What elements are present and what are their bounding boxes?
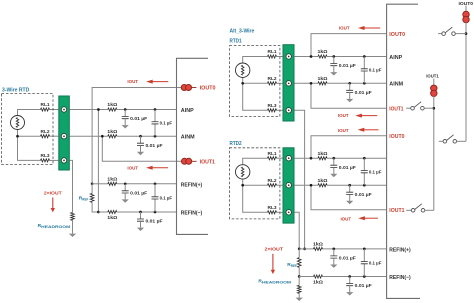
resistor RHEADROOM right	[298, 277, 300, 286]
wire RL3 to block	[277, 109, 284, 111]
svg-text:AINM: AINM	[181, 135, 195, 141]
svg-text:0.01 µF: 0.01 µF	[130, 116, 147, 121]
terminal 3 J3	[286, 210, 291, 215]
wire RTD1 RL2 row	[243, 82, 268, 84]
ground headroom	[69, 234, 76, 237]
capacitor 0.1uF REFIN	[154, 182, 157, 185]
capacitor 0.01uF AINM1	[348, 82, 351, 85]
svg-text:RL3: RL3	[268, 205, 278, 210]
svg-text:IOUT0: IOUT0	[389, 134, 404, 140]
svg-text:0.1 µF: 0.1 µF	[369, 68, 382, 73]
current source IOUT1	[181, 158, 187, 164]
terminal 2 J3	[286, 183, 291, 188]
svg-text:0.1 µF: 0.1 µF	[160, 196, 173, 201]
junction IOUT0 bus switch	[465, 32, 468, 35]
svg-text:0.01 µF: 0.01 µF	[339, 256, 356, 261]
svg-text:2×IOUT: 2×IOUT	[265, 246, 284, 252]
svg-text:IOUT: IOUT	[127, 165, 138, 170]
svg-text:1kΩ: 1kΩ	[318, 49, 329, 54]
junction IOUT1 bus switch	[432, 107, 435, 110]
wire IOUT0 pin to AINP2 node	[311, 136, 387, 158]
svg-text:2×IOUT: 2×IOUT	[44, 191, 62, 197]
resistor RL2 rtd1	[268, 82, 277, 85]
dashed box 3-wire RTD	[2, 94, 54, 165]
capacitor 0.01uF REFIN(-)	[139, 211, 142, 214]
wire AINM2 row	[294, 184, 318, 186]
wire RTD1 top lead to RL1	[243, 57, 268, 64]
svg-text:0.01 µF: 0.01 µF	[355, 90, 372, 95]
svg-text:1kΩ: 1kΩ	[318, 178, 329, 183]
junction RTD2 bottom / RL2	[241, 184, 244, 187]
switch IOUT1 to RTD1	[406, 107, 411, 109]
svg-text:0.1 µF: 0.1 µF	[369, 261, 382, 266]
wire RL3 rtd2 to block	[277, 211, 284, 213]
svg-text:IOUT: IOUT	[339, 25, 350, 30]
svg-text:1kΩ: 1kΩ	[318, 76, 329, 81]
wire RTD1 bottom lead down to RL3 row	[243, 77, 268, 110]
svg-text:1kΩ: 1kΩ	[107, 102, 118, 107]
capacitor 0.1uF AINP-AINM	[154, 108, 157, 111]
svg-text:0.01 µF: 0.01 µF	[339, 165, 356, 170]
wire RL2 to block	[277, 82, 284, 84]
capacitor 0.1uF REFIN right	[363, 248, 366, 251]
svg-text:RTD2: RTD2	[230, 141, 242, 147]
svg-text:AINP: AINP	[389, 55, 402, 61]
junction RTD bottom / RL2	[16, 135, 19, 138]
capacitor 0.01uF AINM	[139, 135, 142, 138]
resistor RL1	[41, 108, 50, 111]
svg-text:REFIN(+): REFIN(+)	[181, 182, 203, 188]
wire RTD top lead to RL1	[18, 110, 41, 116]
svg-text:0.01 µF: 0.01 µF	[355, 283, 372, 288]
wire AINM1 row	[294, 82, 318, 84]
svg-text:RL3: RL3	[41, 153, 51, 158]
wire REFIN(+) row right	[299, 248, 313, 250]
svg-text:RL2: RL2	[268, 178, 278, 183]
wire RL3 row to headroom resistor	[69, 160, 72, 212]
svg-text:HEADROOM: HEADROOM	[262, 281, 291, 285]
capacitor 0.1uF AINP2-AINM2	[363, 157, 366, 160]
resistor RL2 rtd2	[268, 184, 277, 187]
resistor 1k REFIN(-) right	[314, 275, 323, 278]
svg-text:HEADROOM: HEADROOM	[41, 225, 70, 229]
svg-text:IOUT1: IOUT1	[200, 160, 215, 166]
current source IOUT0	[181, 85, 187, 91]
svg-text:0.01 µF: 0.01 µF	[355, 192, 372, 197]
terminal block J1	[59, 96, 70, 170]
svg-text:RL1: RL1	[268, 49, 278, 54]
resistor RL2	[41, 135, 50, 138]
svg-text:1kΩ: 1kΩ	[107, 176, 118, 181]
svg-text:IOUT1: IOUT1	[389, 106, 403, 112]
wire RL3 rtd1 down to reference node	[294, 110, 305, 249]
resistor 1k AINM2	[318, 184, 327, 187]
terminal 2	[61, 134, 66, 139]
svg-text:RL1: RL1	[41, 102, 51, 107]
svg-text:RL2: RL2	[268, 76, 278, 81]
capacitor 0.01uF REFIN(+) right	[332, 248, 335, 251]
wire IOUT0 pin to AINP1 node	[311, 34, 387, 57]
wire REFIN(-) row right	[299, 276, 313, 278]
resistor 1k AINP	[117, 109, 177, 111]
capacitor 0.01uF REFIN(-) right	[348, 275, 351, 278]
wire RL3 row to terminal block	[50, 159, 59, 161]
svg-text:IOUT: IOUT	[340, 217, 351, 222]
wire RL1 row to terminal block	[50, 109, 59, 111]
capacitor 0.01uF AINM2	[348, 184, 351, 187]
switch IOUT0 to RTD2	[439, 140, 443, 142]
capacitor 0.01uF AINP	[124, 108, 127, 111]
svg-text:3-Wire RTD: 3-Wire RTD	[2, 87, 30, 93]
svg-text:IOUT1: IOUT1	[426, 73, 439, 79]
svg-text:REFIN(−): REFIN(−)	[181, 211, 203, 217]
resistor RREF right	[298, 249, 300, 258]
capacitor 0.01uF AINP1	[332, 55, 335, 58]
switch IOUT1 to RTD2	[406, 209, 411, 211]
wire AINM row terminal to 1k	[69, 135, 108, 137]
RTD1 sensor element	[236, 63, 250, 77]
svg-text:0.01 µF: 0.01 µF	[146, 219, 163, 224]
wire IOUT0 source bus	[465, 22, 467, 141]
wire AINM node down to IOUT1 pin	[102, 136, 182, 161]
terminal 3 J2	[286, 108, 291, 113]
svg-text:0.01 µF: 0.01 µF	[146, 143, 163, 148]
resistor RREF	[91, 184, 93, 194]
svg-text:IOUT: IOUT	[338, 113, 349, 118]
svg-text:IOUT0: IOUT0	[200, 86, 216, 92]
svg-text:REF: REF	[82, 198, 88, 202]
svg-text:REFIN(−): REFIN(−)	[389, 275, 411, 281]
wire RL2 row from RTD	[18, 135, 41, 137]
junction AINM1 tap	[310, 82, 313, 85]
RTD sensor element	[11, 116, 25, 130]
svg-text:IOUT1: IOUT1	[389, 208, 404, 214]
junction AINP1 tap	[310, 55, 313, 58]
wire RTD2 top lead to RL1	[243, 158, 268, 165]
ground headroom right	[296, 298, 303, 301]
svg-text:AINM: AINM	[389, 82, 403, 88]
resistor RL3	[41, 159, 50, 162]
ADC box U2	[387, 4, 420, 298]
wire AINP1 row	[294, 56, 318, 58]
svg-text:AINP: AINP	[181, 108, 194, 114]
wire AINP node down to REFIN(-) node	[97, 110, 99, 213]
svg-text:1kΩ: 1kΩ	[318, 151, 329, 156]
resistor RL1 rtd2	[268, 157, 277, 160]
svg-text:0.01 µF: 0.01 µF	[339, 63, 356, 68]
resistor 1k AINM1	[318, 82, 327, 85]
resistor 1k AINP2	[318, 157, 327, 160]
svg-text:IOUT: IOUT	[127, 79, 138, 84]
terminal 1 J2	[286, 54, 291, 59]
svg-text:1kΩ: 1kΩ	[107, 215, 118, 220]
junction REFIN(-) tap	[97, 211, 100, 214]
svg-text:RL2: RL2	[41, 129, 51, 134]
resistor RL1 rtd1	[268, 55, 277, 58]
resistor 1k AINM	[117, 135, 177, 137]
svg-text:0.1 µF: 0.1 µF	[160, 121, 173, 126]
resistor 1k AINP1	[318, 55, 327, 58]
wire IOUT1 source bus	[433, 96, 435, 210]
junction AINP tap	[97, 108, 100, 111]
junction REFIN(+) node right	[298, 248, 301, 251]
svg-text:RTD1: RTD1	[230, 38, 242, 44]
junction REFIN(-) node right	[298, 275, 301, 278]
wire RL2 row to terminal block	[50, 135, 59, 137]
dashed box RTD2	[229, 148, 280, 219]
svg-text:RL3: RL3	[268, 103, 278, 108]
junction REFIN(+) node	[91, 182, 94, 185]
svg-text:1kΩ: 1kΩ	[313, 280, 324, 285]
terminal block J3	[283, 148, 294, 223]
capacitor 0.01uF REFIN(+)	[124, 182, 127, 185]
svg-text:IOUT: IOUT	[338, 128, 349, 133]
RTD2 sensor element	[236, 165, 250, 179]
wire RTD2 RL2 row	[243, 184, 268, 186]
svg-text:1kΩ: 1kΩ	[107, 129, 118, 134]
resistor RHEADROOM	[71, 212, 75, 220]
capacitor 0.1uF AINP1-AINM1	[363, 55, 366, 58]
wire RTD2 bottom lead down to RL3 row	[243, 179, 268, 212]
dashed box RTD1	[229, 46, 280, 117]
junction RTD1 bottom / RL2	[241, 82, 244, 85]
junction AINM tap	[101, 135, 104, 138]
resistor 1k REFIN(-)	[98, 211, 107, 213]
terminal block J2	[283, 45, 294, 121]
svg-text:REF: REF	[291, 264, 297, 268]
svg-text:RL1: RL1	[268, 151, 278, 156]
svg-text:REFIN(+): REFIN(+)	[389, 248, 411, 254]
resistor 1k REFIN(+)	[117, 183, 177, 185]
capacitor 0.01uF AINP2	[332, 157, 335, 160]
svg-text:IOUT0: IOUT0	[389, 32, 405, 38]
wire AINM2 node to IOUT1 pin	[311, 185, 387, 210]
svg-text:0.01 µF: 0.01 µF	[130, 190, 147, 195]
wire RL1 to block	[277, 56, 284, 58]
terminal 3	[61, 158, 66, 163]
wire IOUT0 net from pin down to REFIN(+) node	[92, 88, 182, 184]
svg-text:0.1 µF: 0.1 µF	[369, 170, 382, 175]
wire RL1 rtd2 to block	[277, 157, 284, 159]
junction AINP2 tap	[310, 157, 313, 160]
terminal 2 J2	[286, 81, 291, 86]
resistor RL3 rtd1	[268, 109, 277, 112]
junction AINM2 tap	[310, 184, 313, 187]
svg-text:Alt_3-Wire: Alt_3-Wire	[230, 28, 255, 34]
wire AINP row terminal to 1k	[69, 109, 108, 111]
resistor RL3 rtd2	[268, 211, 277, 214]
wire RL2 rtd2 to block	[277, 184, 284, 186]
wire RTD bottom lead down to RL3 row	[18, 130, 41, 161]
ADC box U1	[177, 58, 209, 234]
terminal 1 J3	[286, 156, 291, 161]
wire RL3 rtd2 down to reference node	[294, 212, 299, 249]
resistor 1k REFIN(+) right	[314, 247, 323, 250]
svg-text:1kΩ: 1kΩ	[313, 242, 324, 247]
wire AINP2 row	[294, 157, 318, 159]
wire AINM1 node to IOUT1 pin	[311, 83, 387, 108]
wire REFIN(+) row	[92, 183, 108, 185]
terminal 1	[61, 107, 66, 112]
switch IOUT0 to RTD1	[438, 33, 442, 35]
